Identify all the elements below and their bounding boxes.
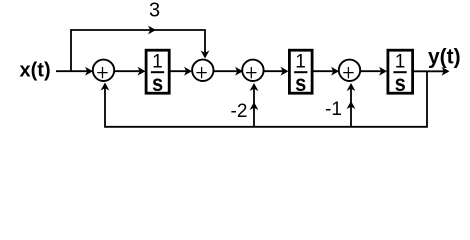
svg-text:-1: -1 bbox=[325, 99, 342, 120]
svg-text:-2: -2 bbox=[231, 101, 248, 122]
svg-text:x(t): x(t) bbox=[20, 59, 51, 81]
svg-text:3: 3 bbox=[149, 0, 160, 22]
svg-text:s: s bbox=[152, 70, 163, 96]
svg-text:s: s bbox=[295, 70, 306, 96]
svg-text:s: s bbox=[395, 70, 406, 96]
svg-text:y(t): y(t) bbox=[428, 45, 461, 68]
